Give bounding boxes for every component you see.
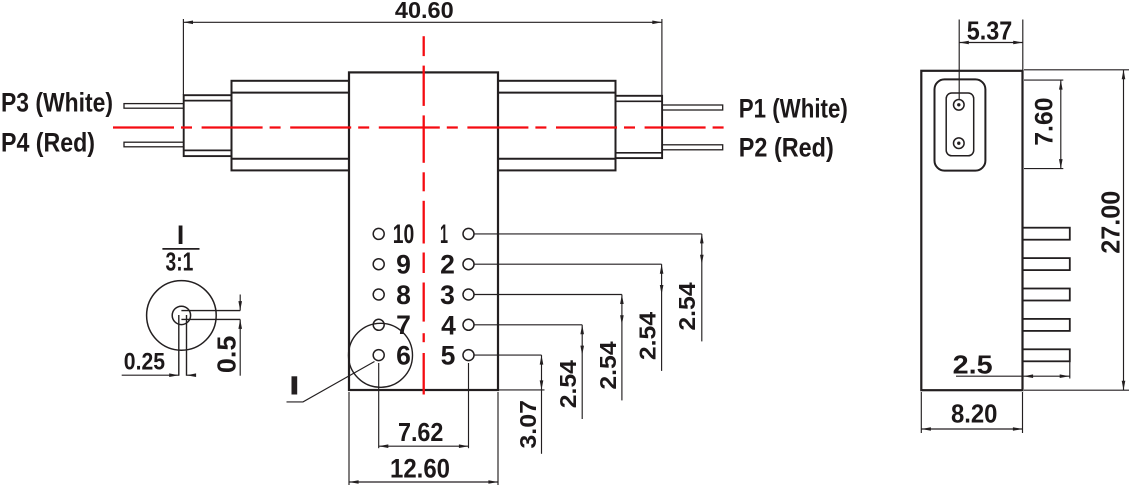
svg-text:2.5: 2.5 <box>953 349 993 379</box>
detail big circle <box>147 281 217 351</box>
fiber P3 (top left) <box>124 104 184 109</box>
dimension 2.54 (pins 1-2) <box>674 234 704 342</box>
dimension 7.62 <box>379 363 469 448</box>
svg-text:P4 (Red): P4 (Red) <box>1 128 95 158</box>
detail ring around pin 6 <box>349 323 413 387</box>
leader pin 4 <box>474 324 582 326</box>
svg-text:12.60: 12.60 <box>390 454 450 484</box>
leader pin 3 <box>474 294 622 296</box>
svg-text:P2 (Red): P2 (Red) <box>739 132 834 162</box>
right arm block <box>498 81 616 171</box>
side view pin 3 <box>1023 289 1070 301</box>
svg-text:5.37: 5.37 <box>967 16 1013 46</box>
left arm block <box>232 81 350 171</box>
svg-text:8: 8 <box>396 280 411 310</box>
leader pin 1 <box>474 233 702 235</box>
svg-text:0.25: 0.25 <box>124 349 165 376</box>
svg-text:2.54: 2.54 <box>555 360 581 408</box>
detail leader line <box>287 362 375 402</box>
pin circle 2 <box>463 259 474 270</box>
dimension 12.60 <box>349 392 498 485</box>
dimension 2.54 (pins 3-4) <box>595 295 624 401</box>
dimension 0.25 <box>122 349 196 378</box>
pin circle 4 <box>463 319 474 330</box>
dimension 3.07 <box>515 355 543 454</box>
side view connector inner <box>946 93 974 156</box>
dimension 2.54 (pins 2-3) <box>635 264 664 371</box>
svg-text:5: 5 <box>441 341 456 371</box>
side view body <box>921 71 1022 390</box>
dimension 2.54 (pins 4-5) <box>555 325 584 419</box>
right collar <box>616 96 663 158</box>
detail label I (main view) <box>292 376 298 394</box>
pin circle 6 <box>373 350 384 361</box>
svg-text:7: 7 <box>396 310 411 340</box>
detail pin vertical lines <box>178 315 180 376</box>
side view connector outer <box>935 79 986 170</box>
svg-text:2.54: 2.54 <box>595 341 621 389</box>
svg-text:10: 10 <box>393 219 415 249</box>
svg-text:2.54: 2.54 <box>635 312 661 360</box>
leader pin 2 <box>474 263 662 265</box>
side view pin hole bottom <box>954 138 965 149</box>
fiber P2 (bottom right) <box>662 145 723 150</box>
svg-text:3:1: 3:1 <box>166 247 194 277</box>
svg-text:8.20: 8.20 <box>951 399 998 429</box>
svg-text:I: I <box>177 220 184 250</box>
side view pin 4 <box>1023 319 1070 331</box>
svg-text:1: 1 <box>440 219 448 249</box>
fiber P1 (top right) <box>662 105 723 110</box>
pin circle 3 <box>463 289 474 300</box>
dimension 2.5 <box>953 349 1070 379</box>
dimension 7.60 <box>1024 80 1063 169</box>
side view pin 2 <box>1023 258 1070 270</box>
svg-text:2.54: 2.54 <box>674 282 700 330</box>
pin circle 10 <box>373 228 384 239</box>
side view pin 5 <box>1023 349 1070 361</box>
red horizontal centerline <box>113 126 727 128</box>
svg-text:6: 6 <box>396 340 411 370</box>
pin circle 7 <box>373 319 384 330</box>
side view pin hole top <box>954 100 965 111</box>
pin circle 9 <box>373 259 384 270</box>
dimension 8.20 <box>921 392 1022 433</box>
fiber P4 (bottom left) <box>124 142 184 147</box>
svg-text:40.60: 40.60 <box>395 0 454 23</box>
svg-text:7.60: 7.60 <box>1030 97 1058 145</box>
svg-text:9: 9 <box>396 250 411 280</box>
dimension 5.37 <box>959 16 1023 99</box>
detail pin horizontal lines <box>181 310 240 312</box>
dimension 0.5 <box>211 295 242 376</box>
svg-text:27.00: 27.00 <box>1096 191 1126 254</box>
svg-text:0.5: 0.5 <box>211 336 241 373</box>
svg-text:2: 2 <box>440 250 455 280</box>
body bottom edge extension <box>499 389 545 391</box>
svg-text:3.07: 3.07 <box>515 400 541 449</box>
detail view title underline <box>162 248 199 250</box>
pin circle 8 <box>373 289 384 300</box>
svg-text:7.62: 7.62 <box>398 417 444 447</box>
detail pin bore circle <box>172 306 190 324</box>
side view pin 1 <box>1023 228 1070 240</box>
left collar <box>184 95 232 156</box>
dimension 40.60 <box>183 0 662 100</box>
main body (front view center block) <box>349 72 498 390</box>
svg-text:4: 4 <box>441 310 456 340</box>
svg-text:3: 3 <box>440 280 455 310</box>
svg-text:P3 (White): P3 (White) <box>1 87 113 117</box>
red vertical centerline <box>423 36 425 56</box>
pin circle 5 <box>463 350 474 361</box>
pin circle 1 <box>463 228 474 239</box>
svg-text:P1 (White): P1 (White) <box>739 94 848 124</box>
leader pin 5 <box>474 354 542 356</box>
dimension 27.00 <box>1024 70 1129 390</box>
